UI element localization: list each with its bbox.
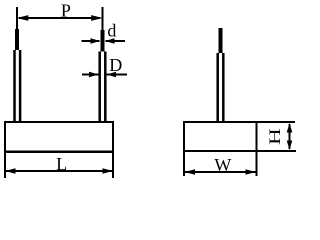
lead 1 outer sleeve (diameter D) (13, 50, 16, 122)
lead 1 center extension line (16, 7, 18, 30)
extension line right side below body (112, 151, 114, 178)
body outline (side view) (184, 122, 257, 151)
dimension line L (6, 170, 112, 172)
arrowhead P right (91, 15, 103, 21)
extension line left side below body (4, 151, 6, 178)
svg-text:d: d (107, 21, 116, 41)
arrowhead H top (287, 123, 293, 133)
lead 1 wire (diameter d) (15, 29, 19, 50)
extension line H top (257, 121, 296, 123)
arrowhead W left (185, 169, 196, 175)
dimension line P (19, 17, 100, 19)
dimension line H (289, 124, 291, 149)
extension line left side below side body (183, 151, 185, 176)
arrowhead L left (5, 168, 16, 174)
arrowhead P left (17, 15, 29, 21)
arrowhead L right (103, 168, 114, 174)
dimension line d right arrow (106, 40, 126, 42)
body outline (front view) (5, 122, 113, 152)
arrowhead W right (246, 169, 257, 175)
extension line H bottom (257, 150, 297, 152)
svg-text:P: P (61, 0, 71, 20)
dimension line W (185, 171, 256, 173)
side view lead outer sleeve (diameter D) (216, 53, 219, 122)
lead 2 outer sleeve (diameter D) (98, 52, 101, 123)
dimension line D left arrow (82, 74, 99, 76)
extension line right side below side body (256, 151, 258, 176)
svg-text:L: L (56, 154, 67, 174)
lead 2 wire (diameter d) (101, 30, 105, 52)
dimension line D right arrow (107, 74, 128, 76)
lead 2 center extension line (102, 7, 104, 31)
arrowhead H bottom (287, 141, 293, 151)
dimension line d left arrow (82, 40, 100, 42)
side view lead wire (diameter d) (219, 28, 223, 53)
svg-text:W: W (214, 155, 231, 175)
svg-text:H: H (265, 128, 283, 145)
svg-text:D: D (109, 55, 122, 75)
